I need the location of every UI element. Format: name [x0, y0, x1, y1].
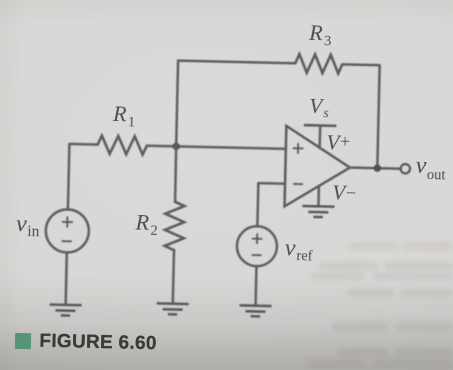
wire: R1 to op-amp noninverting input	[147, 146, 286, 149]
plus sign in vin	[62, 216, 73, 227]
svg-text:R: R	[134, 209, 150, 234]
ground (op-amp negative supply)	[302, 206, 334, 217]
wire: R2 top lead	[175, 146, 176, 201]
node A: junction dot at R1/R2/feedback	[172, 143, 180, 151]
faint page bleed-through smudges (decorative)	[306, 242, 453, 368]
wire: R3 to feedback right vertical down to output node	[340, 64, 380, 168]
wire: R2 bottom lead to ground	[173, 250, 174, 304]
resistor R3	[295, 54, 342, 73]
svg-text:R: R	[112, 101, 128, 126]
resistor R1	[97, 136, 147, 155]
svg-text:2: 2	[150, 223, 158, 239]
node: output junction dot	[374, 164, 382, 172]
svg-text:+: +	[340, 131, 351, 151]
ground (below vin)	[49, 305, 81, 316]
wire: op-amp output	[350, 168, 401, 169]
positive supply bar Vs	[304, 124, 336, 127]
svg-text:v: v	[16, 211, 28, 237]
minus sign at op-amp inverting input	[293, 183, 303, 185]
plus sign at op-amp noninverting input	[293, 143, 304, 154]
wire: inverting input lead from vref	[257, 183, 285, 227]
svg-text:out: out	[427, 167, 446, 183]
wire: vin bottom lead	[66, 252, 67, 304]
op-amp U1 triangle	[285, 126, 351, 208]
wire: supply stub V+	[318, 126, 321, 148]
svg-text:v: v	[284, 236, 296, 262]
minus sign in vref	[252, 254, 262, 256]
svg-text:s: s	[323, 105, 329, 120]
resistor R2	[165, 202, 185, 251]
svg-text:in: in	[27, 223, 40, 240]
svg-text:v: v	[415, 153, 427, 179]
terminal: vout open circle	[401, 164, 411, 174]
caption marker green square	[15, 333, 31, 349]
svg-text:1: 1	[128, 114, 136, 130]
wire: top lead to R3	[178, 61, 295, 64]
minus sign in vin	[62, 240, 72, 242]
wire: vref bottom lead	[254, 266, 257, 305]
source vref circle	[236, 226, 277, 267]
svg-text:FIGURE 6.60: FIGURE 6.60	[39, 331, 157, 355]
wire: vin top lead to R1	[68, 144, 98, 210]
svg-text:ref: ref	[296, 248, 313, 264]
ground (below vref)	[239, 305, 271, 316]
wire: feedback left vertical	[176, 61, 178, 147]
svg-text:−: −	[346, 183, 357, 203]
svg-text:3: 3	[324, 33, 332, 49]
source vin circle	[45, 209, 89, 253]
plus sign in vref	[252, 233, 263, 244]
svg-text:V: V	[309, 94, 325, 118]
svg-text:R: R	[308, 20, 324, 45]
ground (below R2)	[157, 303, 189, 314]
wire: negative supply stub V-	[317, 186, 320, 206]
